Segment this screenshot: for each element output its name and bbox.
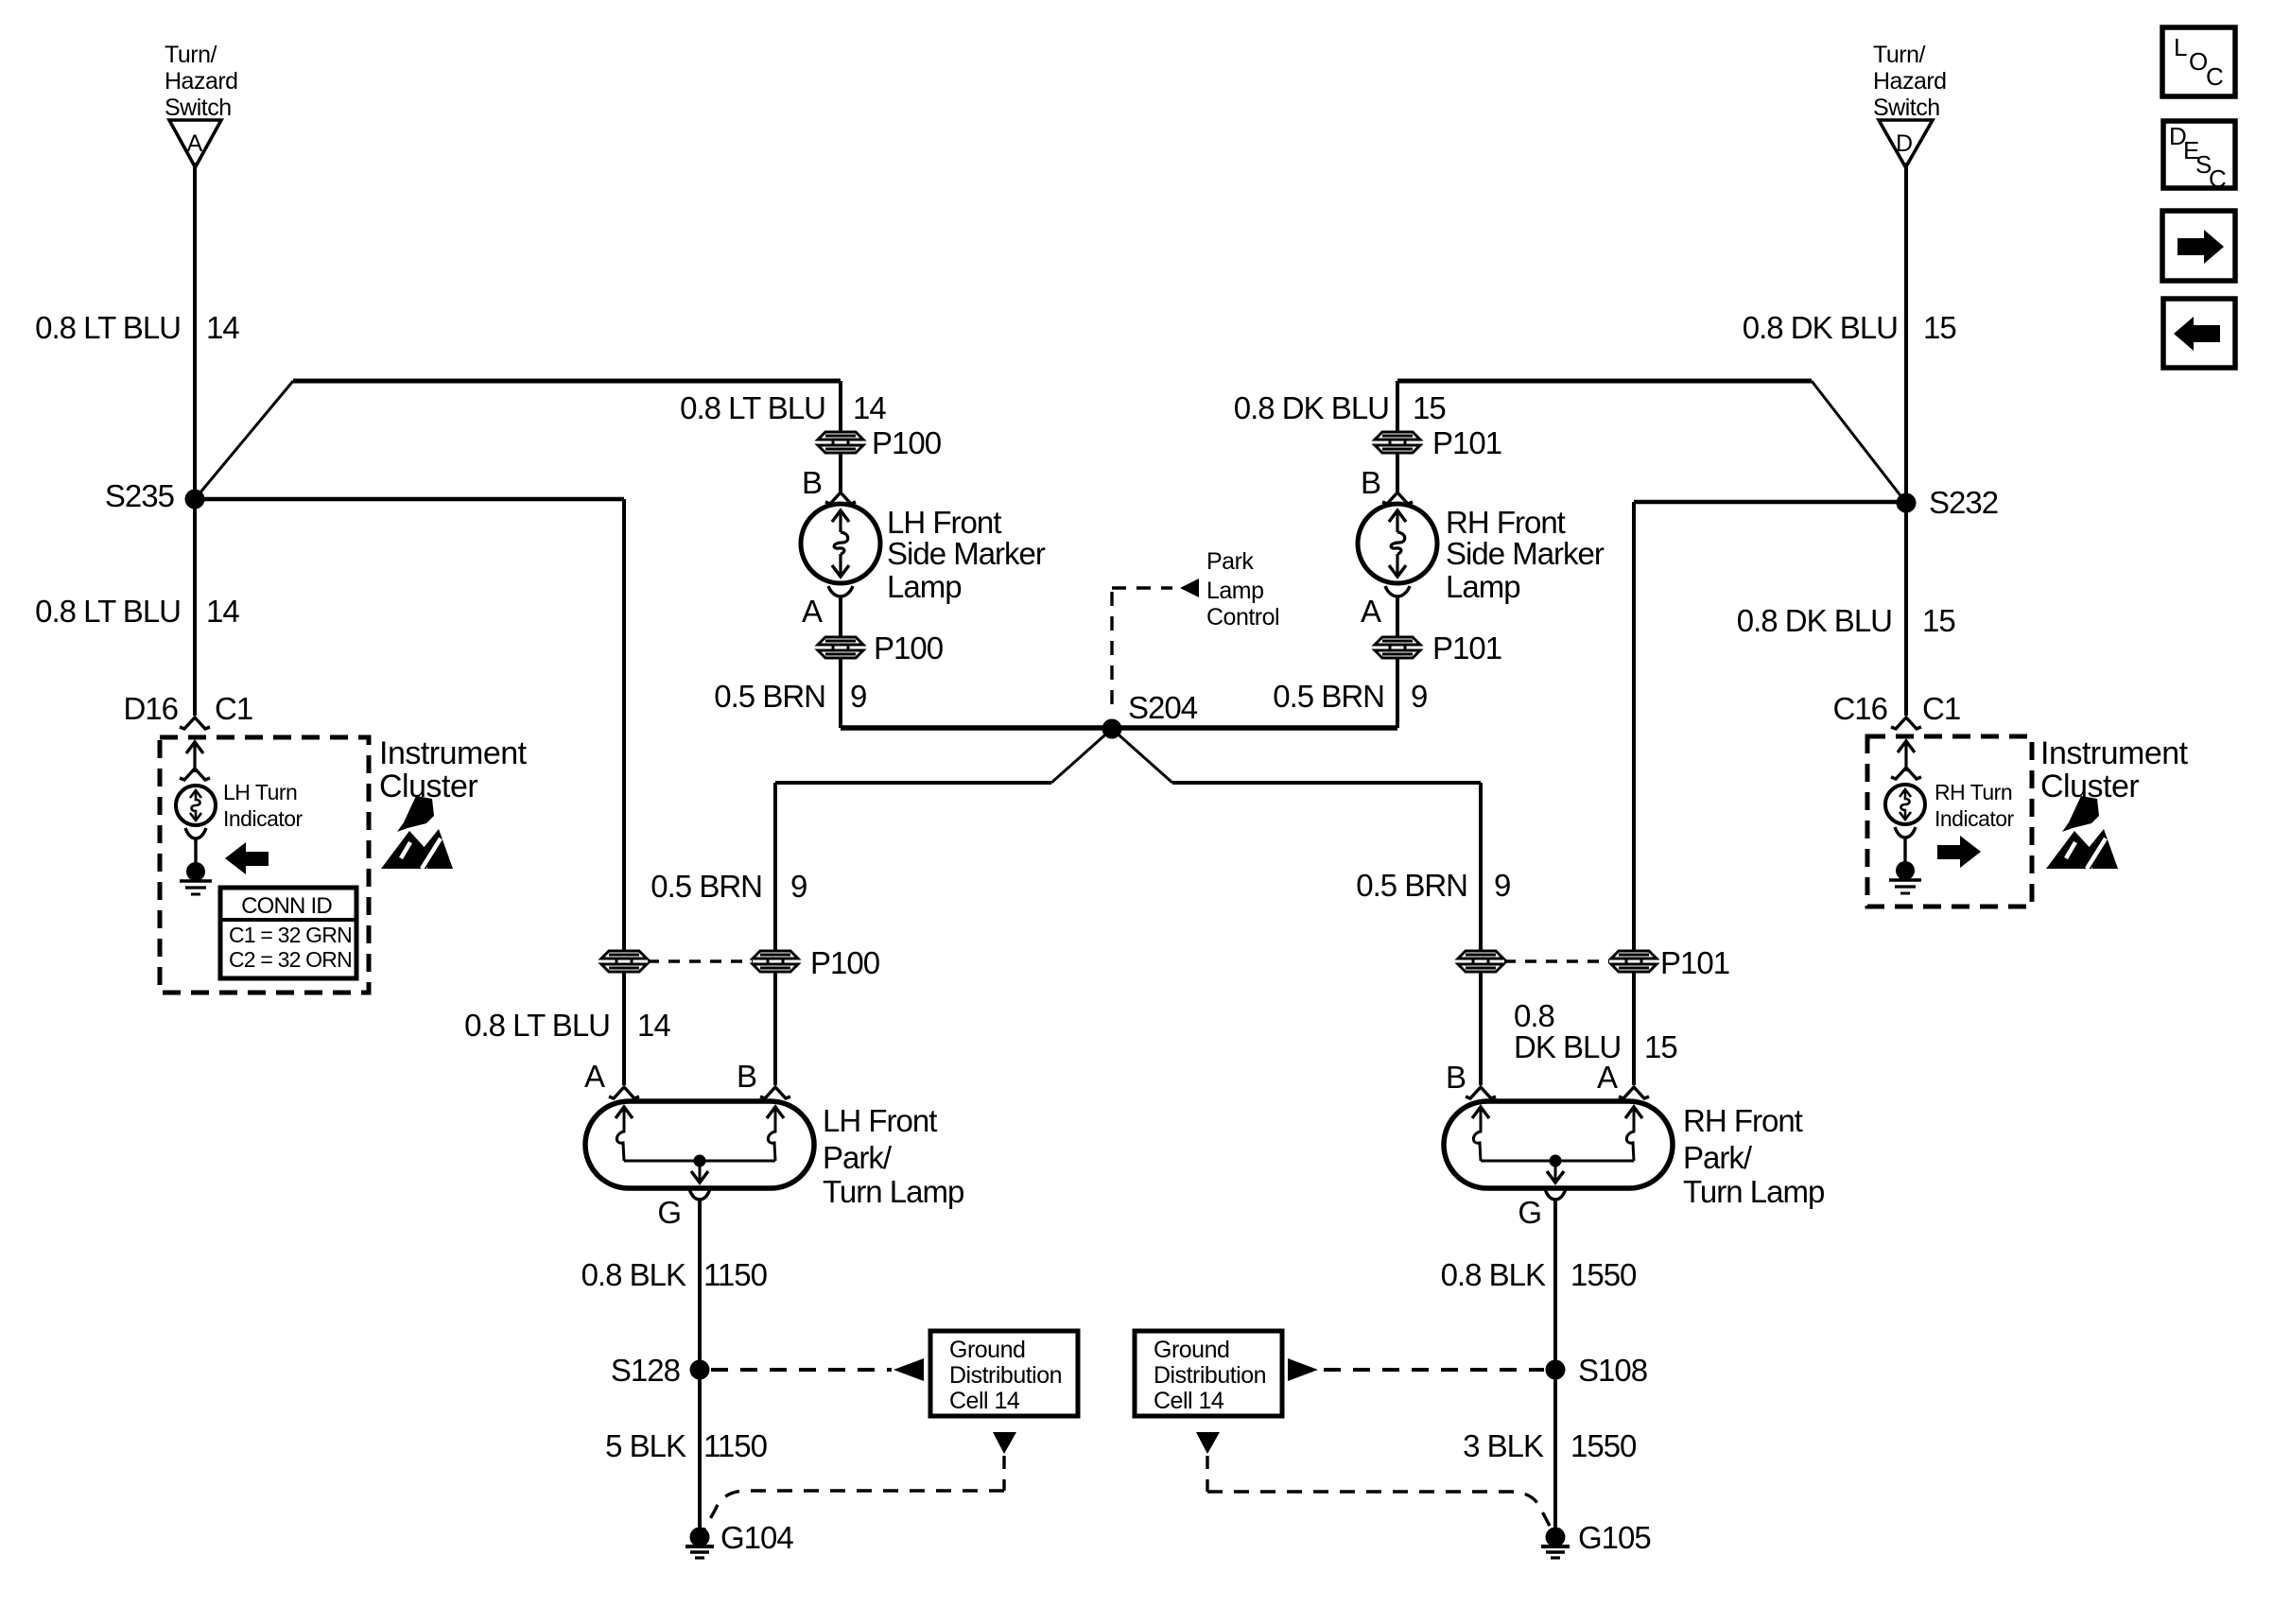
arrowhead (from ground distribution cell, RH) bbox=[1288, 1358, 1318, 1381]
svg-text:Turn Lamp: Turn Lamp bbox=[823, 1174, 963, 1209]
dashed: to G105 bbox=[1207, 1492, 1553, 1531]
wire: S235 down to instrument cluster D16 bbox=[193, 509, 197, 716]
svg-text:Indicator: Indicator bbox=[1935, 806, 2015, 831]
arrowhead (park lamp control) bbox=[1180, 579, 1199, 597]
connector P101 (pin B, RH park/turn) bbox=[1458, 951, 1503, 972]
svg-text:0.8 DK BLU: 0.8 DK BLU bbox=[1737, 603, 1892, 638]
svg-text:Distribution: Distribution bbox=[949, 1362, 1062, 1389]
label P101 bbox=[1432, 425, 1501, 460]
svg-text:Turn/: Turn/ bbox=[1873, 42, 1925, 68]
arrowhead (to ground distribution cell, LH) bbox=[894, 1358, 924, 1381]
svg-text:Side Marker: Side Marker bbox=[887, 536, 1046, 571]
lamp: RH Turn Indicator bbox=[1885, 785, 1925, 824]
wire label 0.8 LT BLU 14 (top left) bbox=[35, 310, 239, 345]
pin label A bbox=[802, 594, 823, 629]
svg-text:0.5 BRN: 0.5 BRN bbox=[1356, 868, 1467, 903]
svg-text:RH Front: RH Front bbox=[1683, 1103, 1803, 1138]
pin arrow into cluster (RH) bbox=[1898, 741, 1915, 771]
svg-text:5 BLK: 5 BLK bbox=[605, 1428, 686, 1463]
connector P101 (pin A, RH park/turn) bbox=[1611, 951, 1657, 972]
wire label 0.8 DK BLU 15 (right, second) bbox=[1737, 603, 1955, 638]
dashed: park lamp control drop to S204 bbox=[1110, 592, 1113, 714]
label Instrument Cluster (LH) bbox=[379, 735, 528, 804]
svg-text:A: A bbox=[187, 130, 203, 157]
svg-text:LH Front: LH Front bbox=[887, 505, 1001, 540]
ground distribution cell box (LH) bbox=[930, 1331, 1078, 1416]
wire: 0.8 DK BLU 15 from switch D to S232 bbox=[1904, 163, 1908, 493]
pin label G (RH) bbox=[1518, 1195, 1541, 1230]
arrowhead below RH ground distribution box bbox=[1196, 1432, 1220, 1454]
pin label D16 / C1 bbox=[123, 691, 252, 726]
svg-text:0.8 LT BLU: 0.8 LT BLU bbox=[680, 390, 825, 425]
svg-text:C2 = 32 ORN: C2 = 32 ORN bbox=[229, 947, 352, 972]
svg-text:0.8 DK BLU: 0.8 DK BLU bbox=[1743, 310, 1898, 345]
lamp: RH Front Park/Turn Lamp bbox=[1444, 1101, 1673, 1188]
wire: pin A to P100 bbox=[839, 597, 842, 637]
legend box: left arrow bbox=[2163, 299, 2235, 368]
svg-text:G104: G104 bbox=[720, 1520, 793, 1555]
svg-text:Instrument: Instrument bbox=[2040, 735, 2189, 771]
splice S204 bbox=[1102, 719, 1122, 739]
label LH Front Side Marker Lamp bbox=[887, 505, 1046, 604]
svg-text:Indicator: Indicator bbox=[223, 806, 304, 831]
dashed: park lamp control horizontal bbox=[1112, 586, 1172, 589]
wire: S232 branch left bbox=[1634, 500, 1906, 505]
svg-text:9: 9 bbox=[850, 679, 866, 714]
cup at side marker pin A bbox=[828, 586, 853, 596]
left turn direction arrow icon bbox=[225, 842, 269, 874]
wire: top bus to LH side marker bbox=[293, 379, 841, 384]
svg-text:S128: S128 bbox=[611, 1353, 680, 1388]
dashed: S128 to ground distribution bbox=[711, 1368, 892, 1372]
label P100 (second) bbox=[874, 631, 944, 665]
svg-text:P100: P100 bbox=[810, 945, 880, 980]
wire: 3 BLK 1550 to G105 bbox=[1553, 1379, 1557, 1529]
svg-text:Control: Control bbox=[1206, 604, 1279, 631]
connector P100 (pin A, LH park/turn) bbox=[601, 951, 647, 972]
svg-text:Lamp: Lamp bbox=[1446, 569, 1520, 604]
svg-text:14: 14 bbox=[206, 310, 239, 345]
wire label 0.5 BRN 9 (RH) bbox=[1273, 679, 1427, 714]
ESD symbol (RH instrument cluster) bbox=[2046, 796, 2118, 869]
wire label 0.8 DK BLU 15 (mid) bbox=[1234, 390, 1446, 425]
dashed: ground distribution to S108 bbox=[1324, 1368, 1544, 1372]
label S204 bbox=[1128, 690, 1198, 725]
pin label G bbox=[657, 1195, 681, 1230]
label LH Front Park/Turn Lamp bbox=[823, 1103, 963, 1209]
svg-text:9: 9 bbox=[1494, 868, 1510, 903]
label RH Turn Indicator bbox=[1935, 780, 2015, 831]
svg-text:L: L bbox=[2174, 33, 2187, 61]
wire label 0.5 BRN 9 (RH lower) bbox=[1356, 868, 1510, 903]
svg-text:0.8 DK BLU: 0.8 DK BLU bbox=[1234, 390, 1389, 425]
connector chevron inside RH cluster bbox=[1891, 768, 1921, 779]
svg-text:C1 = 32 GRN: C1 = 32 GRN bbox=[229, 923, 352, 947]
wire: down to P100 bbox=[839, 381, 842, 432]
svg-text:Park/: Park/ bbox=[1683, 1140, 1753, 1175]
wire: 0.8 DK BLU 15 to lamp pin A bbox=[1632, 972, 1636, 1085]
wire label 5 BLK 1150 bbox=[605, 1428, 768, 1463]
wire: down to P100 pin B of LH park/turn bbox=[773, 783, 777, 951]
wire: top bus to RH side marker bbox=[1397, 379, 1812, 384]
svg-text:G: G bbox=[657, 1195, 681, 1230]
svg-text:S204: S204 bbox=[1128, 690, 1198, 725]
label P100 (bottom) bbox=[810, 945, 880, 980]
wire: S204 diagonal down-left bbox=[1051, 729, 1112, 783]
label RH Front Side Marker Lamp bbox=[1446, 505, 1605, 604]
label G104 bbox=[720, 1520, 793, 1555]
legend box LOC bbox=[2162, 27, 2235, 96]
svg-text:G105: G105 bbox=[1578, 1520, 1651, 1555]
svg-text:Cell 14: Cell 14 bbox=[1154, 1388, 1224, 1414]
svg-text:LH Front: LH Front bbox=[823, 1103, 937, 1138]
pin labels A / B (LH park/turn) bbox=[584, 1059, 756, 1094]
svg-text:0.8: 0.8 bbox=[1514, 998, 1554, 1033]
wire: down to P101 pin B of RH park/turn bbox=[1479, 783, 1483, 951]
wire: park lamp bus right half bbox=[1112, 725, 1397, 731]
pin label C16 / C1 bbox=[1832, 691, 1960, 726]
svg-text:A: A bbox=[584, 1059, 605, 1094]
wire: indicator to cluster ground bbox=[194, 839, 197, 864]
svg-text:B: B bbox=[1446, 1060, 1466, 1095]
wire label 0.8 LT BLU 14 (LH park/turn feed) bbox=[464, 1008, 670, 1043]
svg-text:Turn Lamp: Turn Lamp bbox=[1683, 1174, 1824, 1209]
right turn direction arrow icon bbox=[1937, 836, 1981, 868]
svg-text:0.8 BLK: 0.8 BLK bbox=[581, 1257, 686, 1292]
wire: 0.8 BLK 1150 to S128 bbox=[698, 1201, 702, 1361]
wire: 0.5 BRN to lamp pin B bbox=[1479, 972, 1483, 1085]
svg-text:S235: S235 bbox=[105, 478, 174, 513]
svg-text:Hazard: Hazard bbox=[165, 68, 238, 95]
wire: 0.5 BRN 9 down to bus bbox=[1396, 658, 1399, 728]
label S128 bbox=[611, 1353, 680, 1388]
svg-text:RH Front: RH Front bbox=[1446, 505, 1566, 540]
svg-text:P100: P100 bbox=[872, 425, 942, 460]
svg-text:Ground: Ground bbox=[949, 1337, 1025, 1363]
label P101 (bottom) bbox=[1660, 945, 1729, 980]
wire: down to P100 pin A of LH park/turn bbox=[622, 499, 626, 951]
wire: RH indicator to cluster ground bbox=[1903, 838, 1906, 863]
chevron at RH side marker pin B bbox=[1382, 492, 1413, 504]
svg-text:C: C bbox=[2206, 62, 2224, 91]
dashed: drop from RH ground cell box bbox=[1206, 1456, 1208, 1492]
wire label 0.8 BLK 1150 bbox=[581, 1257, 768, 1292]
svg-text:Ground: Ground bbox=[1154, 1337, 1229, 1363]
wire: S232 diagonal up-left bbox=[1812, 381, 1906, 503]
arrowhead below LH ground distribution box bbox=[993, 1432, 1016, 1454]
legend box: right arrow bbox=[2162, 211, 2235, 281]
svg-text:A: A bbox=[802, 594, 823, 629]
wire: S204 diagonal down-right bbox=[1112, 729, 1172, 783]
wire label 0.8 LT BLU 14 (left, second) bbox=[35, 594, 239, 629]
svg-text:P101: P101 bbox=[1432, 425, 1501, 460]
chevron at LH park/turn pin B bbox=[760, 1087, 790, 1098]
wire: 0.8 BLK 1550 to S108 bbox=[1553, 1201, 1557, 1361]
wire: park lamp bus left half bbox=[841, 725, 1112, 731]
wire: P101 to pin B bbox=[1396, 453, 1399, 492]
lamp: LH Front Park/Turn Lamp bbox=[585, 1101, 814, 1188]
connector P100 (pin B, LH park/turn) bbox=[753, 951, 798, 972]
wire label 0.5 BRN 9 (LH lower) bbox=[651, 869, 807, 904]
cup at RH park/turn pin G bbox=[1545, 1189, 1566, 1200]
chevron at LH park/turn pin A bbox=[609, 1087, 639, 1098]
ground G104 bbox=[685, 1528, 714, 1559]
svg-text:Turn/: Turn/ bbox=[165, 42, 217, 68]
connector P100 (lower of side marker) bbox=[818, 637, 863, 658]
svg-text:9: 9 bbox=[790, 869, 807, 904]
connector chevron at C1 pin C16 bbox=[1891, 717, 1921, 729]
svg-text:Lamp: Lamp bbox=[1206, 578, 1264, 604]
svg-text:CONN ID: CONN ID bbox=[241, 893, 332, 919]
connector P101 (lower of side marker) bbox=[1375, 637, 1420, 658]
svg-text:3 BLK: 3 BLK bbox=[1463, 1428, 1544, 1463]
label Instrument Cluster (RH) bbox=[2040, 735, 2189, 804]
svg-text:9: 9 bbox=[1411, 679, 1427, 714]
ground G105 bbox=[1541, 1528, 1570, 1559]
svg-text:B: B bbox=[737, 1059, 756, 1094]
label G105 bbox=[1578, 1520, 1651, 1555]
svg-text:A: A bbox=[1361, 594, 1381, 629]
pin label B bbox=[802, 465, 822, 500]
wire: 0.8 LT BLU 14 from switch A to S235 bbox=[193, 163, 197, 490]
svg-text:Instrument: Instrument bbox=[379, 735, 528, 771]
lamp: LH Front Side Marker Lamp bbox=[801, 504, 880, 583]
off-page triangle D (Turn/Hazard Switch) bbox=[1879, 120, 1933, 167]
splice S128 bbox=[690, 1360, 710, 1380]
label P101 (second) bbox=[1432, 631, 1501, 665]
pin label B (RH side marker) bbox=[1361, 465, 1380, 500]
cup below RH turn indicator bbox=[1895, 827, 1916, 838]
lamp: LH Turn Indicator bbox=[176, 786, 216, 825]
label RH Front Park/Turn Lamp bbox=[1683, 1103, 1824, 1209]
wire: 0.5 BRN to lamp pin B bbox=[773, 972, 777, 1085]
svg-text:Cell 14: Cell 14 bbox=[949, 1388, 1020, 1414]
svg-text:0.5 BRN: 0.5 BRN bbox=[1273, 679, 1384, 714]
label S235 bbox=[105, 478, 174, 513]
svg-text:15: 15 bbox=[1922, 603, 1955, 638]
label LH Turn Indicator bbox=[223, 780, 304, 831]
svg-text:0.8 LT BLU: 0.8 LT BLU bbox=[35, 594, 181, 629]
cup at RH side marker pin A bbox=[1385, 586, 1410, 596]
svg-text:Lamp: Lamp bbox=[887, 569, 962, 604]
ground (inside LH cluster) bbox=[180, 862, 212, 894]
pin labels B / A (RH park/turn) bbox=[1446, 1060, 1618, 1095]
wire label 3 BLK 1550 bbox=[1463, 1428, 1637, 1463]
svg-text:0.5 BRN: 0.5 BRN bbox=[714, 679, 825, 714]
wire: 5 BLK 1150 to G104 bbox=[698, 1379, 702, 1529]
wire: pin A to P101 bbox=[1396, 597, 1399, 637]
svg-text:Side Marker: Side Marker bbox=[1446, 536, 1605, 571]
svg-text:D16: D16 bbox=[123, 691, 178, 726]
cup below LH turn indicator bbox=[185, 828, 206, 838]
off-page triangle A (Turn/Hazard Switch) bbox=[169, 120, 221, 167]
connector chevron inside cluster bbox=[180, 769, 210, 780]
svg-text:0.8 LT BLU: 0.8 LT BLU bbox=[35, 310, 181, 345]
instrument cluster box (RH, dashed) bbox=[1867, 736, 2032, 907]
svg-text:Distribution: Distribution bbox=[1154, 1362, 1266, 1389]
svg-text:0.8 BLK: 0.8 BLK bbox=[1441, 1257, 1546, 1292]
svg-text:15: 15 bbox=[1644, 1029, 1677, 1064]
svg-text:G: G bbox=[1518, 1195, 1541, 1230]
legend box DESC bbox=[2163, 121, 2235, 193]
chevron at RH park/turn pin B bbox=[1466, 1087, 1496, 1098]
connector chevron at C1 pin D16 bbox=[180, 717, 210, 729]
svg-text:C: C bbox=[2209, 164, 2227, 193]
svg-text:Switch: Switch bbox=[165, 95, 232, 121]
svg-text:C16: C16 bbox=[1832, 691, 1887, 726]
connector P101 (upper) bbox=[1375, 432, 1420, 453]
wire label 0.8 DK BLU 15 (top right) bbox=[1743, 310, 1956, 345]
svg-text:14: 14 bbox=[206, 594, 239, 629]
svg-text:15: 15 bbox=[1923, 310, 1956, 345]
dashed: drop from LH ground cell box bbox=[1002, 1456, 1005, 1491]
svg-text:RH Turn: RH Turn bbox=[1935, 780, 2012, 804]
svg-text:S232: S232 bbox=[1929, 485, 1998, 520]
svg-text:B: B bbox=[802, 465, 822, 500]
svg-text:0.8 LT BLU: 0.8 LT BLU bbox=[464, 1008, 610, 1043]
wire: bus to LH park/turn bbox=[775, 781, 1051, 785]
ground (inside RH cluster) bbox=[1889, 861, 1921, 893]
wire label 0.5 BRN 9 bbox=[714, 679, 866, 714]
wire label 0.8 BLK 1550 bbox=[1441, 1257, 1637, 1292]
lamp: RH Front Side Marker Lamp bbox=[1358, 504, 1437, 583]
wire: S235 branch right bbox=[195, 497, 624, 502]
dashed: P100 connector tie bbox=[648, 959, 753, 962]
svg-text:D: D bbox=[1896, 130, 1913, 157]
wire: 0.5 BRN 9 down to bus bbox=[839, 658, 842, 728]
splice S108 bbox=[1546, 1360, 1566, 1380]
ESD symbol (LH instrument cluster) bbox=[381, 796, 453, 869]
wire: down to P101 bbox=[1396, 381, 1399, 432]
wire: down to P101 pin A of RH park/turn bbox=[1632, 502, 1636, 951]
svg-text:15: 15 bbox=[1413, 390, 1446, 425]
wire: P100 to pin B bbox=[839, 453, 842, 492]
splice S235 bbox=[185, 490, 205, 510]
label P100 bbox=[872, 425, 942, 460]
svg-text:0.5 BRN: 0.5 BRN bbox=[651, 869, 762, 904]
svg-text:Hazard: Hazard bbox=[1873, 68, 1947, 95]
instrument cluster box (LH, dashed) bbox=[160, 737, 369, 993]
svg-text:C1: C1 bbox=[1922, 691, 1960, 726]
svg-text:P101: P101 bbox=[1660, 945, 1729, 980]
connector P100 (upper) bbox=[818, 432, 863, 453]
svg-text:1150: 1150 bbox=[703, 1428, 768, 1463]
wire: bus to RH park/turn bbox=[1172, 781, 1481, 785]
wire: S232 down to instrument cluster C16 bbox=[1904, 512, 1908, 716]
wire: S235 diagonal up-right bbox=[195, 381, 293, 499]
svg-text:C1: C1 bbox=[215, 691, 252, 726]
svg-text:P100: P100 bbox=[874, 631, 944, 665]
svg-text:Park: Park bbox=[1206, 548, 1254, 575]
wire: 0.8 LT BLU 14 to lamp pin A bbox=[622, 972, 626, 1085]
wire label 0.8 LT BLU 14 (mid) bbox=[680, 390, 886, 425]
CONN ID table bbox=[220, 888, 356, 978]
pin arrow into cluster bbox=[186, 742, 203, 772]
svg-text:14: 14 bbox=[637, 1008, 670, 1043]
chevron at RH park/turn pin A bbox=[1619, 1087, 1649, 1098]
svg-text:LH Turn: LH Turn bbox=[223, 780, 297, 804]
label: Turn/Hazard Switch (right) bbox=[1873, 42, 1947, 121]
cup at LH park/turn pin G bbox=[689, 1189, 710, 1200]
splice S232 bbox=[1897, 493, 1917, 513]
svg-text:B: B bbox=[1361, 465, 1380, 500]
svg-text:A: A bbox=[1597, 1060, 1618, 1095]
svg-text:1550: 1550 bbox=[1570, 1257, 1637, 1292]
svg-text:Switch: Switch bbox=[1873, 95, 1940, 121]
ground distribution cell box (RH) bbox=[1135, 1331, 1282, 1416]
pin label A (RH side marker) bbox=[1361, 594, 1381, 629]
svg-text:14: 14 bbox=[853, 390, 886, 425]
label: Turn/Hazard Switch (left) bbox=[165, 42, 238, 121]
label S108 bbox=[1578, 1353, 1647, 1388]
wire label 0.8 DK BLU 15 (RH park/turn feed) bbox=[1514, 998, 1677, 1064]
svg-text:Park/: Park/ bbox=[823, 1140, 893, 1175]
svg-text:1550: 1550 bbox=[1570, 1428, 1637, 1463]
svg-text:P101: P101 bbox=[1432, 631, 1501, 665]
chevron at side marker pin B bbox=[825, 492, 856, 504]
label S232 bbox=[1929, 485, 1998, 520]
svg-text:1150: 1150 bbox=[703, 1257, 768, 1292]
dashed: to G104 bbox=[703, 1491, 1004, 1531]
svg-text:S108: S108 bbox=[1578, 1353, 1647, 1388]
dashed: P101 connector tie bbox=[1504, 959, 1609, 962]
label Park Lamp Control bbox=[1206, 548, 1279, 631]
